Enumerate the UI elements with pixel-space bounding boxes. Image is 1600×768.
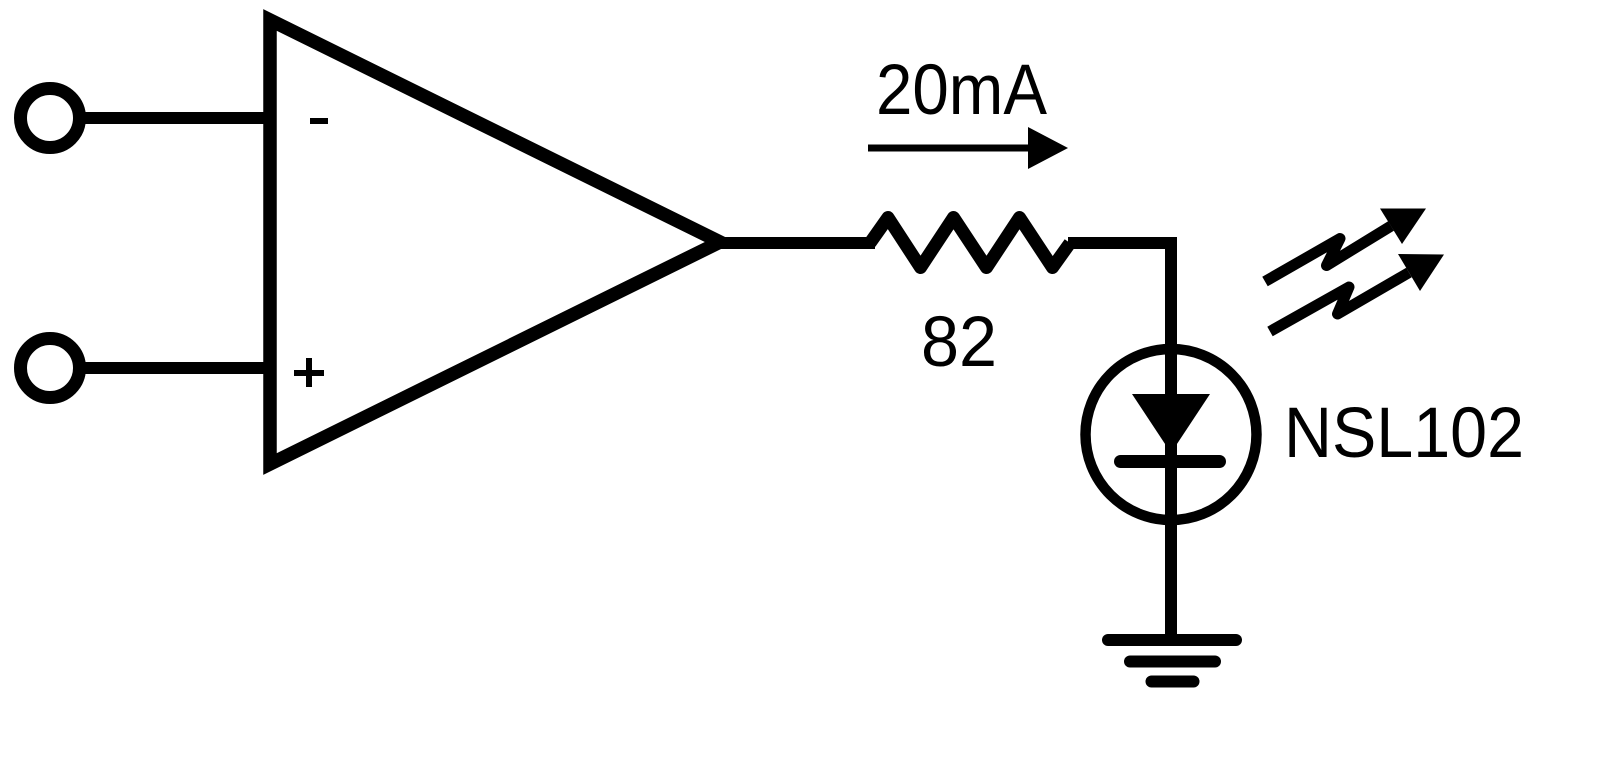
- LED D1 circle: [1086, 349, 1257, 520]
- op-amp U1: [270, 20, 720, 464]
- plus label (non-inverting pin): [294, 358, 324, 387]
- input terminal circle (inverting input): [21, 89, 80, 148]
- LED cathode bar: [1121, 455, 1220, 468]
- minus label (inverting pin): [310, 118, 328, 124]
- ground: [1108, 640, 1236, 682]
- light emission arrow 2: [1270, 254, 1444, 332]
- wire: non-inverting terminal to op-amp: [84, 362, 272, 374]
- svg-text:20mA: 20mA: [876, 51, 1048, 130]
- light emission arrow 1: [1265, 209, 1426, 282]
- wire: op-amp output to resistor: [720, 237, 875, 249]
- wire: resistor to LED and down to ground: [1068, 243, 1171, 640]
- svg-text:NSL102: NSL102: [1284, 394, 1524, 473]
- resistor R1 82: [870, 218, 1070, 268]
- svg-text:82: 82: [921, 303, 997, 382]
- wire: inverting terminal to op-amp: [84, 112, 272, 124]
- input terminal circle (non-inverting input): [21, 339, 80, 398]
- current direction arrow 20mA: [868, 127, 1068, 169]
- LED anode triangle: [1132, 394, 1210, 453]
